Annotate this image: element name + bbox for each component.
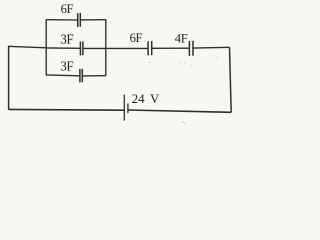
wire: parallel block right rail [105,19,107,76]
svg-text:4F: 4F [175,31,188,45]
wire: top branch left segment [46,19,77,21]
capacitor C5 4F (series) [188,41,190,56]
svg-text:6F: 6F [61,2,74,16]
capacitor C2 3F (middle branch) [79,42,81,56]
scan noise specks [149,58,218,124]
svg-text:6F: 6F [130,31,143,45]
svg-text:3F: 3F [60,31,73,46]
wire: bottom right segment [128,110,231,112]
wire: block right rail to series capacitor C4 [106,47,148,49]
wire: bottom left segment [9,108,125,111]
wire: parallel block left rail [45,19,47,75]
battery B1 24V short plate [127,104,129,114]
capacitor C3 3F (bottom branch) [79,69,81,82]
svg-text:24: 24 [132,91,146,106]
wire: bottom branch left segment [46,74,80,77]
svg-text:V: V [150,91,160,106]
wire: middle branch left segment [46,47,80,49]
svg-text:3F: 3F [60,59,73,74]
wire: middle branch right segment [83,47,106,49]
wire: between series capacitors C4 and C5 [152,47,190,49]
wire: top branch right segment [80,19,106,21]
wire: outer right vertical [230,47,232,112]
wire: capacitor C5 to top-right corner [193,46,230,49]
background paper [0,0,239,129]
wire: bottom branch right segment [82,75,106,77]
wire: node A stub, left wire to parallel block [8,46,46,48]
capacitor C4 6F (series) [147,41,149,55]
battery B1 24V long plate [123,95,125,121]
capacitor C1 6F (top branch) [77,13,79,27]
wire: outer left vertical [8,46,10,109]
